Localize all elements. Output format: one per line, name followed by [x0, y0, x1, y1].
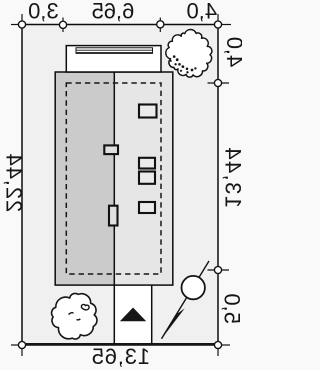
survey point circle top-right [214, 21, 221, 28]
survey point ticks bottom-right corner [218, 345, 230, 356]
survey point ticks right mid 2 [208, 269, 230, 271]
tree T1 top right [166, 30, 212, 78]
north arrow line [162, 261, 210, 339]
entrance triangle marker [120, 308, 146, 322]
svg-text:5,0: 5,0 [220, 293, 243, 324]
roof window W4 [139, 202, 155, 213]
svg-text:6,65: 6,65 [92, 0, 135, 23]
survey point circle top-left [18, 21, 25, 28]
plot parcel fill [22, 25, 218, 346]
road edge thick bottom line [22, 343, 218, 345]
survey point ticks right mid 1 [208, 82, 230, 84]
survey point circle right mid 2 [214, 266, 221, 273]
page background [0, 0, 242, 370]
svg-text:4,0: 4,0 [222, 37, 242, 68]
survey point circle top mid 1 [59, 21, 66, 28]
roof outline [55, 72, 173, 285]
north arrow head [162, 308, 185, 339]
survey point circle bottom-right [214, 341, 221, 348]
survey point circle right mid 1 [214, 79, 221, 86]
driveway path white strip [114, 285, 151, 345]
chimney C2 vertical on ridge [109, 206, 118, 226]
roof right half [114, 72, 173, 285]
svg-text:4,0: 4,0 [187, 0, 218, 23]
driveway left line [113, 285, 115, 344]
survey point ticks top-right corner [218, 14, 231, 25]
chimney C1 on ridge [104, 145, 118, 154]
survey point ticks top-left corner [11, 14, 22, 25]
roof window W3 [139, 172, 155, 184]
terrace steps strip top line [76, 47, 153, 49]
roof left half [55, 72, 114, 285]
driveway right line [151, 285, 153, 344]
terrace steps strip end caps [75, 47, 77, 53]
north arrow circle [182, 276, 205, 299]
roof window W1 [139, 105, 157, 118]
terrace white rectangle [66, 46, 161, 72]
survey point ticks bottom-left corner [11, 345, 22, 356]
building footprint dashed outline [66, 83, 161, 274]
terrace steps strip bottom line [76, 52, 153, 54]
tree T2 bottom left [52, 293, 97, 339]
plot boundary [22, 25, 218, 346]
survey point ticks top mid 2 [159, 18, 161, 33]
survey point circle top mid 2 [157, 21, 164, 28]
svg-text:13,44: 13,44 [221, 146, 243, 208]
svg-text:22,44: 22,44 [2, 153, 27, 213]
svg-text:3,0: 3,0 [28, 0, 59, 23]
roof window W2 [139, 158, 155, 169]
survey point ticks top mid 1 [62, 18, 64, 33]
svg-text:13,65: 13,65 [91, 344, 150, 369]
survey point circle bottom-left [18, 341, 25, 348]
ridge line [113, 72, 115, 285]
terrace steps strip mid line [76, 49, 153, 51]
